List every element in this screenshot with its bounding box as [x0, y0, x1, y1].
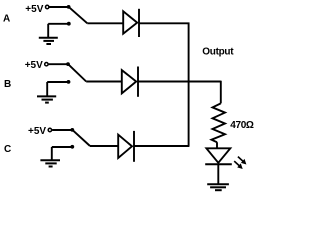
LED D4 [205, 148, 246, 169]
svg-text:B: B [4, 79, 11, 90]
wire +5V terminal to switch contact A [49, 6, 68, 8]
resistor R1 zigzag [212, 103, 226, 142]
svg-text:Output: Output [202, 46, 234, 57]
ground (input A) [39, 24, 58, 44]
junction dot +5V contact A [67, 5, 71, 9]
wire ground contact B [47, 81, 67, 83]
wire corner down to resistor R1 [220, 81, 222, 104]
svg-text:+5V: +5V [28, 126, 46, 137]
junction dot +5V contact C [70, 128, 74, 132]
switch arm SW1 (input A) [69, 7, 87, 23]
ground (input B) [37, 82, 56, 103]
junction dot ground contact B [67, 80, 71, 84]
diode D3 (input C) [118, 131, 134, 162]
wire switch A to diode D1 [87, 22, 123, 24]
output bus vertical wire [188, 23, 190, 147]
ground (LED) [207, 184, 229, 190]
svg-text:A: A [3, 13, 10, 24]
wire ground contact C [52, 146, 71, 148]
svg-text:C: C [4, 144, 11, 155]
junction dot ground contact A [67, 22, 71, 26]
wire switch C to diode D3 [90, 145, 118, 147]
LED light arrow 2 [234, 161, 243, 169]
wire switch B to diode D2 [86, 81, 122, 83]
junction dot ground contact C [70, 145, 74, 149]
wire +5V terminal to switch contact C [52, 129, 72, 131]
wire +5V terminal to switch contact B [49, 63, 68, 65]
switch arm SW3 (input C) [73, 130, 90, 146]
diode D2 (input B) [122, 67, 138, 97]
wire diode D3 to output bus [134, 145, 189, 147]
junction dot +5V contact B [66, 62, 70, 66]
switch arm SW2 (input B) [68, 64, 86, 81]
svg-text:+5V: +5V [25, 60, 43, 71]
wire resistor R1 to LED D4 [216, 142, 218, 148]
wire diode D2 to resistor branch (crosses bus) [138, 81, 221, 83]
terminal circle (input B +5V) [45, 62, 48, 65]
LED light arrow 1 [238, 157, 247, 165]
diode D1 (input A) [123, 9, 139, 37]
wire ground contact A [48, 23, 67, 25]
terminal circle (input C +5V) [48, 128, 51, 131]
svg-text:470Ω: 470Ω [230, 120, 254, 131]
ground (input C) [40, 147, 60, 167]
wire LED D4 cathode to ground [217, 164, 219, 184]
svg-text:+5V: +5V [25, 4, 43, 15]
terminal circle (input A +5V) [46, 5, 49, 8]
wire diode D1 to output bus [139, 22, 189, 24]
